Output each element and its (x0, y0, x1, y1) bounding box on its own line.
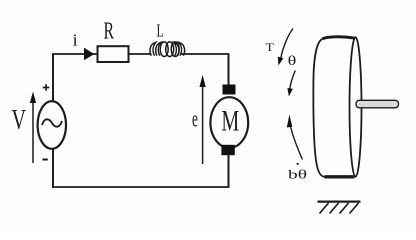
resistor R1 (98, 46, 129, 62)
svg-text:e: e (192, 107, 198, 133)
motor U1 (210, 97, 248, 148)
wire right vertical (228, 53, 230, 188)
rotor disk body (323, 37, 356, 39)
svg-text:L: L (157, 21, 164, 41)
arrow e (202, 86, 204, 164)
damping arrow b-theta-dot (291, 127, 303, 160)
svg-text:R: R (104, 19, 115, 45)
torque arrow T (281, 29, 293, 59)
svg-text:i: i (73, 30, 78, 49)
current arrow i (84, 48, 94, 61)
arrow V (32, 99, 34, 163)
wire bottom horizontal (52, 186, 229, 188)
rotor disk right face (350, 37, 362, 177)
inductor L1 (150, 42, 185, 57)
svg-text:M: M (221, 103, 239, 137)
svg-text:θ: θ (288, 53, 297, 69)
svg-text:bθ: bθ (288, 167, 307, 182)
ground (318, 201, 361, 203)
minus mark (43, 159, 48, 161)
shaft (356, 100, 399, 108)
theta dot mark (297, 163, 299, 165)
svg-text:T: T (266, 40, 275, 54)
motor terminal top (223, 85, 236, 95)
angle arrow theta (290, 71, 296, 90)
wire top horizontal (53, 53, 229, 55)
wire left vertical (52, 53, 54, 188)
voltage source V1 (38, 101, 66, 149)
plus mark (43, 84, 50, 91)
motor terminal bottom (221, 145, 234, 155)
svg-text:V: V (12, 105, 27, 136)
sine symbol (42, 119, 62, 126)
